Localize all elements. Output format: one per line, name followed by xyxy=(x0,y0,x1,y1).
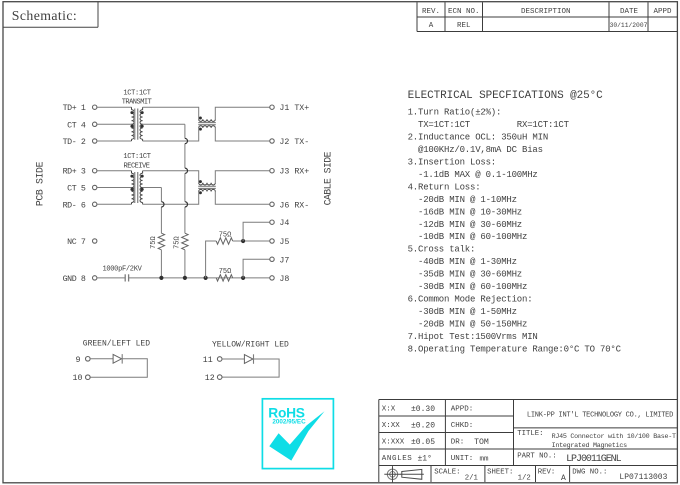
revision table xyxy=(417,2,677,31)
dwg no cell xyxy=(572,468,667,482)
pin 12 xyxy=(205,374,222,383)
sheet cell xyxy=(487,468,531,482)
svg-text:9: 9 xyxy=(76,356,81,365)
LED D2 yellow diode xyxy=(244,354,253,364)
svg-text:UNIT:: UNIT: xyxy=(451,455,474,463)
wire D1 to pin10 loop xyxy=(90,359,147,377)
svg-text:±0.05: ±0.05 xyxy=(411,438,435,447)
transformer T1 primary winding xyxy=(132,107,135,141)
svg-text:2002/95/EC: 2002/95/EC xyxy=(272,419,306,426)
wire pin3 to T2 primary top xyxy=(97,170,132,172)
svg-text:3.Insertion Loss:: 3.Insertion Loss: xyxy=(408,158,496,168)
pin 9 xyxy=(76,356,91,365)
svg-text:-16dB MIN @ 10-30MHz: -16dB MIN @ 10-30MHz xyxy=(408,207,522,217)
svg-text:75Ω: 75Ω xyxy=(219,268,232,276)
title block tolerance column xyxy=(382,405,435,464)
transformer T1 polarity dot primary top xyxy=(130,111,133,114)
svg-text:ELECTRICAL SPECFICATIONS @25°C: ELECTRICAL SPECFICATIONS @25°C xyxy=(408,90,604,102)
svg-text:12: 12 xyxy=(205,374,215,383)
svg-text:11: 11 xyxy=(203,356,213,365)
svg-text:LPJ0011GENL: LPJ0011GENL xyxy=(566,454,622,465)
svg-text:2.Inductance OCL: 350uH MIN: 2.Inductance OCL: 350uH MIN xyxy=(408,133,548,143)
wire branch up to J4 xyxy=(243,222,270,241)
svg-text:1CT:1CT: 1CT:1CT xyxy=(123,90,150,98)
svg-text:Integrated Magnetics: Integrated Magnetics xyxy=(552,442,627,450)
svg-text:-30dB MIN @ 60-100MHz: -30dB MIN @ 60-100MHz xyxy=(408,282,528,292)
resistor R4 75ohm (on GND rail) xyxy=(216,275,233,281)
third angle projection symbol xyxy=(384,466,424,482)
wire choke L1 bottom out to J2 xyxy=(215,128,269,141)
svg-text:75Ω: 75Ω xyxy=(150,236,158,249)
pin J5 xyxy=(270,238,290,247)
wire T1 secondary bottom to choke L1 bottom xyxy=(143,128,199,141)
svg-text:1.Turn Ratio(±2%):: 1.Turn Ratio(±2%): xyxy=(408,108,502,118)
pin 10 xyxy=(73,374,91,383)
svg-text:REV.: REV. xyxy=(422,8,440,16)
choke L1 bottom winding xyxy=(199,126,216,128)
part number cell xyxy=(517,453,621,465)
svg-text:CT 4: CT 4 xyxy=(67,121,86,130)
wire pin8 to capacitor C1 xyxy=(97,277,125,279)
svg-text:X:XX: X:XX xyxy=(382,422,401,430)
svg-text:J2 TX-: J2 TX- xyxy=(279,138,309,147)
Schematic title box xyxy=(3,2,98,28)
svg-text:5.Cross talk:: 5.Cross talk: xyxy=(408,245,476,255)
svg-text:LINK-PP INT'L TECHNOLOGY CO.,: LINK-PP INT'L TECHNOLOGY CO., LIMITED xyxy=(527,412,673,420)
svg-text:±0.30: ±0.30 xyxy=(411,405,435,414)
scale cell xyxy=(434,468,478,482)
choke L2 bottom winding xyxy=(199,189,216,191)
wire T2 secondary top to choke L2 xyxy=(143,171,199,183)
pin J2 xyxy=(270,138,309,147)
rev cell xyxy=(538,468,566,482)
LED D1 green diode xyxy=(113,354,122,364)
svg-text:±1°: ±1° xyxy=(418,454,432,463)
svg-text:TD- 2: TD- 2 xyxy=(63,138,86,147)
svg-text:A: A xyxy=(429,22,434,30)
junction J7 branch on GND rail xyxy=(241,276,245,280)
svg-text:CT 5: CT 5 xyxy=(67,185,86,194)
transformer T2 1CT:1CT RECEIVE label xyxy=(123,153,150,170)
svg-text:X:XXX: X:XXX xyxy=(382,439,405,447)
svg-text:8.Operating Temperature Range:: 8.Operating Temperature Range:0°C TO 70°… xyxy=(408,344,622,354)
transformer T1 polarity dot secondary top xyxy=(141,111,144,114)
pin J6 xyxy=(270,201,309,210)
svg-text:X:X: X:X xyxy=(382,406,396,414)
wire R3 to J5 xyxy=(233,240,270,242)
svg-text:J4: J4 xyxy=(279,219,289,228)
svg-text:DR:: DR: xyxy=(451,439,465,447)
svg-text:DESCRIPTION: DESCRIPTION xyxy=(521,8,571,16)
svg-text:TX=1CT:1CT RX=1CT:1CT: TX=1CT:1CT RX=1CT:1CT xyxy=(408,120,570,130)
title cell xyxy=(517,430,676,450)
resistor R2 75ohm (transmit CT) xyxy=(182,233,188,250)
pin J1 xyxy=(270,104,309,113)
wire R1 to GND rail xyxy=(160,250,162,278)
svg-text:-40dB MIN @ 1-30MHz: -40dB MIN @ 1-30MHz xyxy=(408,257,517,267)
svg-text:Schematic:: Schematic: xyxy=(12,8,77,23)
transformer T1 core xyxy=(135,109,138,140)
svg-text:YELLOW/RIGHT LED: YELLOW/RIGHT LED xyxy=(212,341,289,350)
svg-text:-20dB MIN @ 50-150MHz: -20dB MIN @ 50-150MHz xyxy=(408,319,528,329)
resistor R3 75ohm xyxy=(216,238,233,244)
pin 5 CT xyxy=(67,185,97,194)
svg-text:mm: mm xyxy=(480,456,490,464)
svg-text:1000pF/2KV: 1000pF/2KV xyxy=(102,265,142,273)
transformer T2 polarity dot primary lower xyxy=(130,188,133,191)
GND rail wire to J8 xyxy=(129,277,270,279)
wire T1 secondary top to choke L1 xyxy=(143,107,199,119)
choke L2 polarity dot top xyxy=(199,180,202,183)
transformer T1 polarity dot secondary lower xyxy=(141,125,144,128)
choke L2 core xyxy=(198,186,216,188)
svg-text:-12dB MIN @ 30-60MHz: -12dB MIN @ 30-60MHz xyxy=(408,220,522,230)
choke L2 top winding xyxy=(199,183,216,185)
pin 8 GND xyxy=(63,275,97,284)
pin 4 CT xyxy=(67,121,97,130)
pin J3 xyxy=(270,168,309,177)
svg-text:6.Common Mode Rejection:: 6.Common Mode Rejection: xyxy=(408,294,533,304)
svg-text:APPD:: APPD: xyxy=(451,406,474,414)
choke L1 core xyxy=(198,123,216,125)
transformer T2 secondary winding xyxy=(140,171,143,205)
svg-text:J8: J8 xyxy=(279,275,289,284)
svg-text:SHEET:: SHEET: xyxy=(487,468,513,476)
pin 1 TD+ xyxy=(63,104,97,113)
svg-text:±0.20: ±0.20 xyxy=(411,421,435,430)
svg-text:TRANSMIT: TRANSMIT xyxy=(122,99,152,107)
pin 3 RD+ xyxy=(63,168,97,177)
pin 11 xyxy=(203,356,222,365)
svg-text:-35dB MIN @ 30-60MHz: -35dB MIN @ 30-60MHz xyxy=(408,270,522,280)
svg-text:RECEIVE: RECEIVE xyxy=(124,162,150,170)
transformer T1 secondary winding xyxy=(140,107,143,141)
svg-text:J7: J7 xyxy=(279,256,289,265)
RoHS logo xyxy=(262,399,333,469)
transformer T1 1CT:1CT TRANSMIT label xyxy=(122,90,152,107)
svg-text:75Ω: 75Ω xyxy=(219,231,232,239)
svg-text:-30dB MIN @ 1-50MHz: -30dB MIN @ 1-50MHz xyxy=(408,307,517,317)
svg-text:1CT:1CT: 1CT:1CT xyxy=(123,153,150,161)
wire pin1 to T1 primary top xyxy=(97,106,132,108)
junction J4 branch xyxy=(241,239,245,243)
wire pin4 to T1 primary center tap xyxy=(97,123,132,125)
svg-text:REL: REL xyxy=(457,22,471,30)
transformer T2 polarity dot secondary top xyxy=(141,175,144,178)
electrical specifications list xyxy=(408,108,622,355)
svg-text:-10dB MIN @ 60-100MHz: -10dB MIN @ 60-100MHz xyxy=(408,232,528,242)
wire D2 to pin12 loop xyxy=(222,359,279,377)
svg-text:REV:: REV: xyxy=(538,468,556,476)
svg-text:DWG NO.:: DWG NO.: xyxy=(572,468,607,476)
pin J7 xyxy=(270,256,290,265)
title block approvals column xyxy=(451,406,489,464)
junction V1-GND xyxy=(159,276,163,280)
svg-text:GREEN/LEFT LED: GREEN/LEFT LED xyxy=(83,339,150,348)
svg-text:30/11/2007: 30/11/2007 xyxy=(610,22,648,29)
svg-text:RD+ 3: RD+ 3 xyxy=(63,168,86,177)
svg-text:TD+ 1: TD+ 1 xyxy=(63,104,86,113)
pin 6 RD- xyxy=(63,201,97,210)
wire T2 secondary bottom to choke L2 bottom xyxy=(143,192,199,205)
svg-text:1/2: 1/2 xyxy=(518,474,531,482)
transformer T2 core xyxy=(135,172,138,203)
svg-text:-20dB MIN @ 1-10MHz: -20dB MIN @ 1-10MHz xyxy=(408,195,517,205)
crossover hop V2 over RD- wire xyxy=(185,202,188,207)
title block xyxy=(379,400,677,483)
svg-text:LP07113003: LP07113003 xyxy=(619,473,667,482)
wire pin5 to T2 primary center tap xyxy=(97,187,132,189)
choke L1 polarity dot top xyxy=(199,117,202,120)
svg-text:RD- 6: RD- 6 xyxy=(63,201,86,210)
transformer T2 polarity dot primary top xyxy=(130,175,133,178)
wire GND rail up to R3 xyxy=(206,241,217,278)
junction V2-GND xyxy=(183,276,187,280)
svg-text:@100KHz/0.1V,8mA DC Bias: @100KHz/0.1V,8mA DC Bias xyxy=(408,145,543,155)
svg-text:J6 RX-: J6 RX- xyxy=(279,201,309,210)
svg-text:-1.1dB MAX @ 0.1-100MHz: -1.1dB MAX @ 0.1-100MHz xyxy=(408,170,538,180)
svg-text:PART NO.:: PART NO.: xyxy=(517,453,556,461)
capacitor C1 1000pF/2KV xyxy=(125,274,128,281)
svg-text:4.Return Loss:: 4.Return Loss: xyxy=(408,182,481,192)
crossover hop V1 over RD- wire xyxy=(161,202,164,207)
wire pin9 to LED D1 xyxy=(90,358,113,360)
wire T2 secondary center tap to vertical V1 xyxy=(143,188,162,234)
svg-text:ANGLES: ANGLES xyxy=(382,455,413,463)
wire R2 to GND rail xyxy=(184,250,186,278)
svg-text:J5: J5 xyxy=(279,238,289,247)
crossover hop V2 over RD+ wire xyxy=(185,168,188,173)
svg-text:TITLE:: TITLE: xyxy=(517,430,543,438)
svg-text:A: A xyxy=(561,474,566,483)
transformer T2 polarity dot secondary lower xyxy=(141,188,144,191)
choke L2 polarity dot bottom xyxy=(199,191,202,194)
wire choke L1 top out to J1 xyxy=(215,107,269,119)
transformer T2 primary winding xyxy=(132,171,135,205)
wire pin6 to T2 primary bottom xyxy=(97,203,132,205)
svg-text:J3 RX+: J3 RX+ xyxy=(279,168,309,177)
svg-text:10: 10 xyxy=(73,374,83,383)
svg-text:APPD: APPD xyxy=(653,8,672,16)
crossover hop V2 over TD- wire xyxy=(185,138,188,143)
transformer T1 polarity dot primary lower xyxy=(130,125,133,128)
svg-text:CHKD:: CHKD: xyxy=(451,422,474,430)
pin 2 TD- xyxy=(63,138,97,147)
pin 7 NC xyxy=(67,238,97,247)
svg-text:CABLE SIDE: CABLE SIDE xyxy=(323,151,334,205)
svg-text:PCB SIDE: PCB SIDE xyxy=(35,161,46,206)
svg-text:2/1: 2/1 xyxy=(465,474,479,482)
wire branch up to J7 xyxy=(243,259,270,278)
wire pin11 to LED D2 xyxy=(222,358,244,360)
svg-text:7.Hipot Test:1500Vrms MIN: 7.Hipot Test:1500Vrms MIN xyxy=(408,332,538,342)
pin J8 xyxy=(270,275,290,284)
svg-text:NC 7: NC 7 xyxy=(67,238,86,247)
svg-text:75Ω: 75Ω xyxy=(174,236,182,249)
wire T1 secondary center tap to vertical V2 xyxy=(143,124,185,233)
svg-text:GND 8: GND 8 xyxy=(63,275,86,284)
svg-text:RJ45 Connector with 10/100 Bas: RJ45 Connector with 10/100 Base-T xyxy=(552,433,676,441)
wire choke L2 bottom out to J6 xyxy=(215,192,269,205)
svg-text:DATE: DATE xyxy=(620,8,639,16)
choke L1 top winding xyxy=(199,119,216,121)
svg-text:ECN NO.: ECN NO. xyxy=(448,8,480,16)
resistor R1 75ohm (receive CT) xyxy=(158,233,164,250)
pin J4 xyxy=(270,219,290,228)
junction V3-GND xyxy=(204,276,208,280)
svg-text:TOM: TOM xyxy=(474,438,489,447)
wire pin2 to T1 primary bottom xyxy=(97,140,132,142)
wire choke L2 top out to J3 xyxy=(215,171,269,183)
svg-text:J1 TX+: J1 TX+ xyxy=(279,104,309,113)
svg-text:SCALE:: SCALE: xyxy=(434,468,460,476)
choke L1 polarity dot bottom xyxy=(199,128,202,131)
